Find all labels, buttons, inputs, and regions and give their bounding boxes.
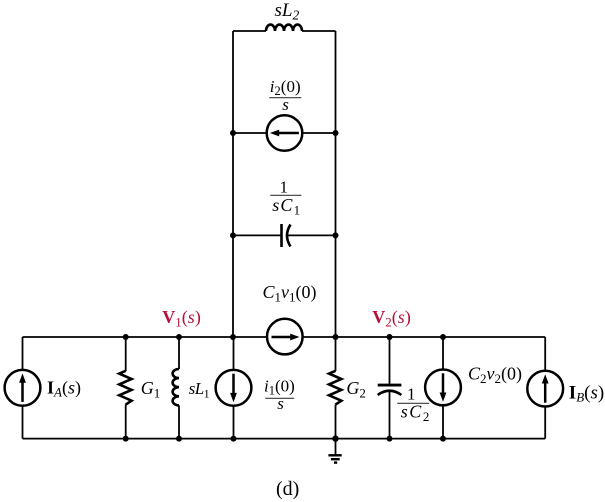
svg-text:IA(s): IA(s) xyxy=(47,377,81,399)
svg-text:s: s xyxy=(277,394,284,413)
svg-text:1: 1 xyxy=(280,178,289,197)
svg-text:V2(s): V2(s) xyxy=(372,307,411,329)
svg-text:IB(s): IB(s) xyxy=(569,382,604,404)
svg-text:s: s xyxy=(282,95,289,114)
svg-text:(d): (d) xyxy=(276,478,299,500)
svg-text:V1(s): V1(s) xyxy=(162,307,201,329)
